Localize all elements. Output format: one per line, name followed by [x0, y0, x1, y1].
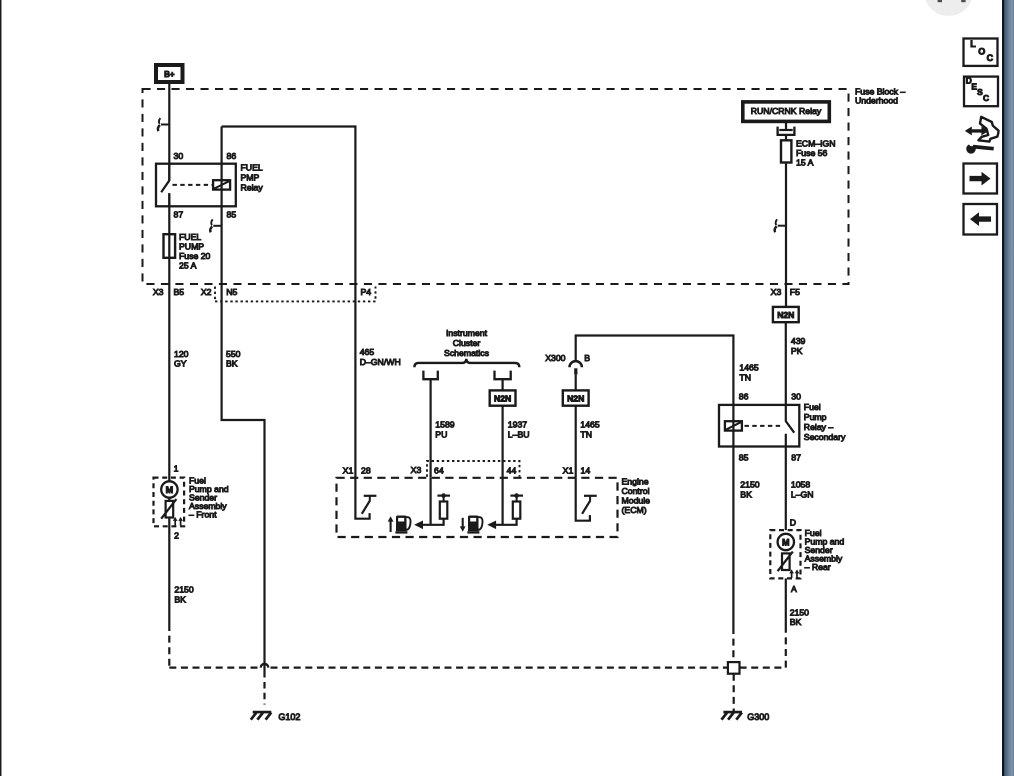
relay coil (pins 86-85) [725, 421, 742, 430]
relay Fuel Pump Relay - Secondary [719, 405, 799, 447]
LOC button [964, 39, 998, 66]
svg-text:L: L [970, 39, 976, 49]
svg-text:Underhood: Underhood [855, 96, 898, 106]
svg-text:Fuel: Fuel [804, 402, 821, 412]
next (right arrow) button [964, 164, 998, 194]
svg-text:B+: B+ [164, 70, 175, 79]
ground G300 [723, 711, 742, 714]
connector X3 dotted outline on ECM [427, 461, 520, 477]
svg-text:– Rear: – Rear [805, 562, 831, 572]
svg-text:Relay: Relay [241, 183, 264, 193]
ECM sense resistor pin 44 [496, 478, 517, 525]
ECM driver for pin 28 [355, 478, 369, 519]
svg-text:Secondary: Secondary [804, 432, 846, 442]
connector X300 pin B [570, 361, 582, 367]
svg-text:2150: 2150 [174, 584, 193, 594]
svg-text:87: 87 [791, 453, 801, 463]
svg-text:465: 465 [360, 347, 375, 357]
svg-text:Control: Control [622, 486, 650, 496]
svg-text:BK: BK [226, 359, 238, 369]
wire 1589 PU [430, 379, 432, 478]
svg-text:BK: BK [740, 489, 752, 499]
svg-text:Module: Module [622, 495, 651, 505]
dashed drop to G300 [733, 674, 735, 711]
ECM pump indicator (front) [388, 516, 394, 521]
off-page fork right [495, 371, 511, 380]
svg-text:Fuse 20: Fuse 20 [179, 251, 211, 261]
ECM driver for pin 14 [576, 478, 590, 521]
svg-text:87: 87 [174, 210, 184, 220]
wire to fuse [785, 135, 787, 140]
svg-text:28: 28 [361, 466, 371, 476]
fuse block underhood dashed box [143, 89, 849, 284]
relay coil (pins 86-85) [213, 180, 230, 189]
svg-text:M: M [166, 485, 174, 495]
svg-text:TN: TN [739, 372, 751, 382]
svg-text:64: 64 [434, 466, 444, 476]
svg-text:1937: 1937 [508, 419, 527, 429]
svg-text:2: 2 [174, 530, 179, 540]
svg-text:PUMP: PUMP [179, 242, 204, 252]
svg-text:X300: X300 [545, 353, 565, 363]
wire B+ down to fuel pump front (120 GY / 2150 BK) [168, 84, 170, 624]
svg-text:(ECM): (ECM) [622, 505, 647, 515]
svg-text:X2: X2 [201, 287, 212, 297]
svg-text:15 A: 15 A [796, 157, 814, 167]
svg-text:O: O [978, 46, 985, 56]
svg-text:L–GN: L–GN [791, 489, 814, 499]
fuel pump and sender assembly rear [770, 530, 800, 578]
svg-text:M: M [782, 537, 790, 547]
relay actuation dashed link [173, 184, 213, 186]
svg-text:PK: PK [791, 346, 803, 356]
dashed drop to G102 [263, 682, 265, 705]
svg-text:X3: X3 [771, 287, 782, 297]
svg-text:A: A [791, 584, 797, 594]
ECM pump indicator (rear) [460, 526, 466, 531]
svg-text:Cluster: Cluster [453, 338, 481, 348]
svg-text:B: B [584, 353, 590, 363]
relay switch contact (pins 30-87) [786, 405, 794, 447]
svg-text:D–GN/WH: D–GN/WH [360, 357, 401, 367]
left page border [0, 0, 2, 776]
junction box on rail (G300 tap) [728, 662, 740, 674]
svg-text:N2N: N2N [777, 310, 794, 320]
svg-text:86: 86 [227, 151, 237, 161]
svg-text:1058: 1058 [791, 480, 810, 490]
svg-text:85: 85 [739, 453, 749, 463]
DESC button [964, 77, 998, 107]
svg-text:30: 30 [174, 151, 184, 161]
svg-text:L–BU: L–BU [508, 429, 530, 439]
splice N2N [490, 390, 516, 405]
ECM sense resistor pin 64 [423, 478, 444, 525]
svg-text:ECM–IGN: ECM–IGN [796, 138, 836, 148]
svg-text:N5: N5 [226, 287, 237, 297]
svg-text:N2N: N2N [494, 393, 511, 403]
svg-text:14: 14 [581, 466, 591, 476]
svg-text:X3: X3 [153, 287, 164, 297]
back (left arrow) button [964, 204, 998, 235]
svg-text:2150: 2150 [790, 607, 809, 617]
splice hump at 550 BK / rail junction [261, 664, 269, 668]
svg-text:BK: BK [790, 617, 802, 627]
svg-text:X1: X1 [343, 466, 354, 476]
svg-text:1465: 1465 [580, 419, 599, 429]
svg-text:85: 85 [227, 210, 237, 220]
svg-text:GY: GY [174, 359, 187, 369]
svg-text:BK: BK [174, 595, 186, 605]
svg-text:Fuse 56: Fuse 56 [796, 148, 828, 158]
relay FUEL PMP Relay [156, 164, 236, 207]
ground G102 [253, 711, 272, 714]
svg-text:RUN/CRNK Relay: RUN/CRNK Relay [751, 106, 822, 116]
svg-text:C: C [987, 53, 994, 63]
svg-text:439: 439 [791, 336, 806, 346]
svg-text:25 A: 25 A [179, 261, 197, 271]
svg-text:44: 44 [507, 466, 517, 476]
fuel pump and sender assembly front [154, 478, 185, 527]
svg-text:P4: P4 [361, 287, 372, 297]
svg-text:1589: 1589 [435, 419, 454, 429]
svg-text:30: 30 [791, 391, 801, 401]
in-line connector on ECM-IGN feed [778, 225, 786, 227]
schematic-navigation icon (double arrow, outline, wrench) [978, 117, 998, 142]
svg-text:X3: X3 [411, 465, 422, 475]
in-line connector on B+ feed [161, 124, 169, 126]
brace [414, 359, 519, 368]
wire 1058 L-GN pin 87 to rear pump [785, 447, 787, 531]
wire 465 D-GN/WH: relay pin 86 over to ECM pin 28 [222, 127, 356, 478]
svg-text:550: 550 [226, 349, 241, 359]
svg-text:86: 86 [739, 391, 749, 401]
svg-text:PU: PU [435, 429, 447, 439]
wire 550 BK: relay pin 85 down, jog right to G102 splice [222, 127, 265, 678]
svg-text:Engine: Engine [622, 476, 649, 486]
fuse ECM-IGN Fuse 56 15A [781, 140, 791, 162]
svg-text:X1: X1 [563, 466, 574, 476]
svg-text:FUEL: FUEL [179, 232, 201, 242]
svg-text:Schematics: Schematics [444, 348, 490, 358]
svg-text:C: C [983, 93, 989, 103]
wire 1937 L-BU [502, 379, 504, 478]
connector X2 dotted outline [215, 287, 376, 302]
svg-text:1465: 1465 [739, 363, 758, 373]
relay actuation dashed link [745, 425, 784, 427]
svg-text:D: D [790, 518, 796, 528]
splice N2N [773, 307, 799, 322]
svg-text:Instrument: Instrument [446, 328, 488, 338]
wire 439 PK down to N2N [785, 163, 787, 307]
svg-text:1: 1 [174, 464, 179, 474]
svg-text:Pump: Pump [804, 412, 827, 422]
svg-text:FUEL: FUEL [241, 163, 263, 173]
svg-text:B5: B5 [174, 287, 185, 297]
fork terminal below RUN/CRNK relay [785, 122, 787, 130]
partial circle button top edge [924, 0, 973, 16]
node RUN/CRNK Relay [743, 102, 830, 122]
relay switch contact (pins 30-87) [161, 164, 169, 207]
svg-text:G102: G102 [278, 712, 300, 722]
svg-text:F5: F5 [790, 287, 800, 297]
fuse FUEL PUMP Fuse 20 25A [164, 234, 176, 258]
svg-text:N2N: N2N [567, 393, 584, 403]
svg-text:2150: 2150 [740, 480, 759, 490]
right window edge bar [1002, 0, 1004, 776]
svg-text:G300: G300 [747, 712, 769, 722]
svg-text:Relay –: Relay – [804, 422, 834, 432]
off-page fork left [423, 371, 437, 380]
svg-text:PMP: PMP [241, 173, 260, 183]
wire 1465 TN from X300 to relay secondary pin 86 [576, 336, 734, 628]
splice N2N [563, 390, 589, 405]
node B+ [156, 65, 183, 82]
module Engine Control Module (ECM) dashed box [337, 478, 618, 537]
svg-text:120: 120 [174, 349, 189, 359]
wire 2150 BK rear [785, 578, 787, 629]
dashed ground rail [169, 624, 728, 668]
svg-text:– Front: – Front [189, 510, 217, 520]
in-line connector below relay pin 85 [213, 225, 221, 227]
svg-text:TN: TN [580, 429, 592, 439]
